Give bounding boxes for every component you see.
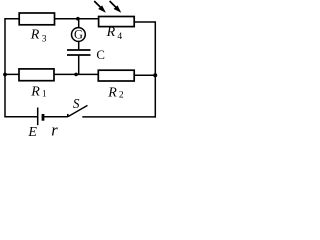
svg-text:1: 1 bbox=[42, 89, 47, 99]
capacitor C bbox=[67, 50, 91, 55]
svg-text:C: C bbox=[96, 48, 105, 62]
wire: capacitor to middle rail bbox=[78, 55, 80, 74]
light arrow 2 on R4 bbox=[110, 1, 122, 13]
wire: middle rail right bbox=[134, 74, 156, 76]
wire: top rail right bbox=[134, 21, 155, 23]
galvanometer G (U1) bbox=[72, 28, 86, 42]
wire: bottom rail middle bbox=[44, 116, 68, 118]
switch S : left contact tick bbox=[67, 114, 69, 117]
svg-text:r: r bbox=[51, 120, 58, 138]
svg-text:E: E bbox=[27, 125, 37, 138]
wire: left vertical bbox=[4, 19, 6, 117]
wire: right vertical bbox=[154, 21, 156, 117]
switch S : blade bbox=[68, 105, 88, 116]
node A (top junction dot) bbox=[76, 17, 80, 21]
light arrow 1 on R4 bbox=[94, 1, 106, 13]
node: middle rail right dot bbox=[153, 73, 157, 77]
wire: bottom rail left bbox=[4, 116, 37, 118]
node: middle rail center dot bbox=[74, 73, 78, 77]
svg-text:R: R bbox=[107, 86, 117, 101]
resistor R1 bbox=[19, 69, 54, 81]
node: middle rail left dot bbox=[3, 73, 7, 77]
svg-text:R: R bbox=[106, 25, 116, 40]
wire: top rail left bbox=[4, 18, 98, 20]
svg-text:2: 2 bbox=[119, 91, 124, 101]
resistor R4 bbox=[99, 17, 135, 27]
battery E r : long positive plate bbox=[37, 108, 39, 126]
svg-text:4: 4 bbox=[117, 32, 122, 42]
resistor R3 bbox=[19, 13, 54, 25]
svg-text:S: S bbox=[73, 96, 80, 111]
wire: bottom rail right bbox=[82, 116, 156, 118]
wire: branch from top rail to galvanometer bbox=[78, 19, 80, 28]
resistor R2 bbox=[98, 70, 134, 81]
wire: galvanometer to capacitor bbox=[78, 41, 80, 50]
battery E r : short negative plate bbox=[42, 114, 45, 121]
svg-text:R: R bbox=[30, 27, 40, 42]
svg-text:G: G bbox=[74, 28, 83, 42]
wire: middle rail left bbox=[4, 73, 97, 75]
svg-text:R: R bbox=[30, 85, 40, 100]
svg-text:3: 3 bbox=[42, 34, 47, 44]
